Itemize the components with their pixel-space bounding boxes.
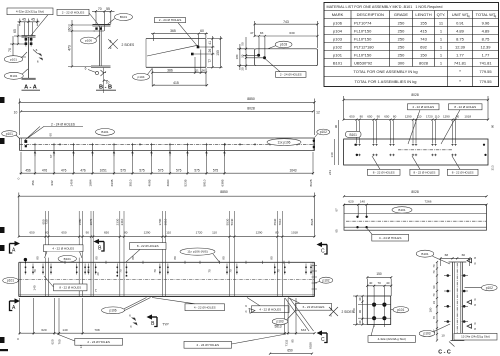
svg-text:779.55: 779.55 [479,69,492,74]
callout p102 (plan) [315,129,330,137]
svg-text:575: 575 [176,169,182,173]
svg-text:4 - 22 Ø HOLES: 4 - 22 Ø HOLES [259,307,281,311]
callout B101 (A-A) [4,69,28,79]
svg-text:415: 415 [173,81,179,85]
label 6-22 holes (elev bottom 3) [288,298,332,311]
svg-text:C: C [321,337,325,343]
svg-text:10: 10 [14,110,18,114]
weld symbol 6/6 (elev bottom) [129,314,137,329]
svg-text:365: 365 [170,29,176,33]
svg-text:50: 50 [240,42,244,46]
svg-text:1290: 1290 [256,231,263,235]
svg-text:90: 90 [432,285,436,289]
svg-text:B101: B101 [398,208,406,212]
svg-text:415: 415 [420,28,427,33]
svg-text:p104: p104 [138,75,145,79]
callout p103 (elev) [272,310,296,325]
svg-text:2 - 24 Ø HOLES: 2 - 24 Ø HOLES [280,73,302,77]
svg-text:QTY.: QTY. [437,12,446,17]
svg-text:180: 180 [235,54,239,59]
svg-text:p102: p102 [486,286,493,290]
svg-text:630: 630 [289,31,294,35]
callout B101 (R2) [392,207,412,213]
svg-text:476: 476 [42,169,48,173]
svg-text:8850: 8850 [247,97,255,101]
svg-text:p104: p104 [333,28,343,33]
plate p103 outline [235,37,317,77]
svg-text:7332: 7332 [284,339,288,346]
svg-text:B101: B101 [64,257,72,261]
svg-text:MARK: MARK [332,12,344,17]
svg-text:p106: p106 [333,20,343,25]
callout B101 (elev) [58,255,76,262]
svg-text:p103: p103 [333,36,343,41]
title A-A [22,85,41,91]
svg-text:80: 80 [124,231,128,235]
svg-text:70: 70 [432,316,436,320]
svg-text:30: 30 [358,320,362,324]
svg-text:12: 12 [316,110,320,114]
label 2-24 holes (plan) [25,122,84,140]
svg-text:68: 68 [445,253,449,257]
callout B101 (R1) [346,131,362,137]
svg-text:GRADE: GRADE [394,12,409,17]
svg-text:1408: 1408 [70,179,74,186]
svg-text:67: 67 [335,208,339,212]
svg-text:40: 40 [386,281,390,285]
svg-text:3700: 3700 [158,218,162,225]
svg-text:932: 932 [50,180,54,185]
label 11x p106 N/S (elev) [180,248,220,262]
svg-text:5235: 5235 [184,179,188,186]
gusset leader diagonals right [285,298,314,331]
svg-text:620: 620 [41,328,46,332]
callout p102 (elev) [315,277,333,283]
svg-text:70: 70 [119,269,123,273]
weld symbol 2 SIDES (elev right) [329,307,354,318]
svg-text:476: 476 [61,169,67,173]
svg-text:41: 41 [208,41,212,45]
material list table [324,3,499,87]
svg-text:650: 650 [367,115,372,119]
svg-text:4 - 22 Ø HOLES: 4 - 22 Ø HOLES [194,305,216,309]
svg-text:B101: B101 [421,252,429,256]
svg-text:9.96: 9.96 [482,20,491,25]
label 8-22 holes (elev top mid) [126,243,166,262]
svg-text:60: 60 [67,26,71,30]
svg-text:4 - 24 Ø HOLES: 4 - 24 Ø HOLES [379,236,402,240]
svg-text:83: 83 [260,31,264,35]
svg-text:20: 20 [96,272,100,275]
label 4-22 holes (elev top left) [44,245,84,258]
svg-text:p103: p103 [276,320,283,324]
callout p102 (C-C) [465,285,498,291]
svg-text:2410: 2410 [120,218,124,225]
svg-text:26: 26 [208,49,212,53]
label 2-24 holes (p103 detail) [265,59,306,77]
svg-text:692: 692 [420,44,427,49]
svg-text:1051: 1051 [100,169,107,173]
svg-text:650: 650 [104,231,109,235]
svg-text:7266: 7266 [425,200,432,204]
svg-text:741.81: 741.81 [454,60,467,65]
section marker B bottom with TYP [147,314,170,327]
svg-text:650: 650 [287,348,293,352]
svg-text:70: 70 [277,269,281,273]
svg-text:4 - 22 Ø HOLES: 4 - 22 Ø HOLES [412,105,434,109]
svg-text:90: 90 [377,115,381,119]
svg-text:80: 80 [36,256,40,260]
svg-text:70: 70 [33,269,37,273]
svg-text:620: 620 [51,339,55,344]
svg-text:8.75: 8.75 [482,36,491,41]
svg-text:250: 250 [398,52,405,57]
svg-text:12-24ø (24x32Lg Slot): 12-24ø (24x32Lg Slot) [461,335,490,339]
svg-text:8.75: 8.75 [456,36,465,41]
svg-text:2 - 24 Ø HOLES: 2 - 24 Ø HOLES [87,340,110,344]
svg-text:TYP: TYP [162,323,169,327]
svg-text:60: 60 [462,253,466,257]
svg-text:5530: 5530 [225,218,229,225]
svg-text:2 - 22 Ø HOLES: 2 - 22 Ø HOLES [62,10,85,14]
section marker B top [94,239,105,252]
svg-text:47: 47 [250,31,254,35]
svg-text:6: 6 [110,46,112,50]
svg-text:B101: B101 [101,130,109,134]
svg-text:1290: 1290 [144,231,151,235]
svg-text:p101: p101 [333,52,343,57]
callout p103 (detail) [268,41,292,49]
svg-text:743: 743 [283,20,289,24]
svg-text:110: 110 [212,231,217,235]
svg-text:40: 40 [369,281,373,285]
svg-text:150: 150 [352,308,356,313]
svg-text:8028: 8028 [247,107,255,111]
svg-text:313: 313 [491,165,495,170]
svg-text:4.89: 4.89 [482,28,491,33]
svg-text:p102: p102 [322,278,329,282]
svg-text:90: 90 [334,125,338,129]
svg-text:FL10*150: FL10*150 [354,28,372,33]
callout p101 (elev) [3,278,19,284]
svg-text:300: 300 [398,60,405,65]
svg-text:90: 90 [358,310,362,314]
svg-text:p106: p106 [85,39,92,43]
label 4-24 holes (R2) [367,228,409,241]
svg-text:6: 6 [36,48,38,52]
svg-text:1018: 1018 [464,115,471,119]
svg-text:1.77: 1.77 [482,52,491,57]
svg-text:456: 456 [31,180,35,185]
svg-text:10: 10 [441,334,445,338]
svg-text:140: 140 [62,328,67,332]
svg-text:110: 110 [435,115,440,119]
svg-text:45: 45 [31,18,35,22]
svg-text:1643: 1643 [289,169,296,173]
svg-text:8 - 22 Ø HOLES: 8 - 22 Ø HOLES [59,285,81,289]
callout p106 (elev bottom) [102,298,151,314]
svg-text:A - A: A - A [24,85,37,91]
label 4-22 holes (elev bottom 2) [247,298,289,313]
svg-text:8028: 8028 [411,93,419,97]
svg-text:70: 70 [229,269,233,273]
section marker C top [317,242,328,255]
svg-text:20: 20 [240,67,244,71]
svg-text:140: 140 [330,152,334,157]
svg-text:51: 51 [195,68,199,72]
svg-text:70: 70 [208,269,212,273]
svg-text:473: 473 [67,45,71,51]
svg-text:80: 80 [131,256,135,260]
svg-text:70: 70 [8,48,12,52]
svg-text:6385: 6385 [221,179,225,186]
svg-text:4-32ø (22x32Lg Slot): 4-32ø (22x32Lg Slot) [16,9,44,13]
svg-text:650: 650 [61,231,66,235]
svg-text:60: 60 [200,29,204,33]
callout p104 [132,69,152,81]
svg-text:0: 0 [17,177,21,179]
svg-text:80: 80 [269,256,273,260]
svg-text:4660: 4660 [166,179,170,186]
svg-text:1.77: 1.77 [456,52,465,57]
svg-text:8 - 22 Ø HOLES: 8 - 22 Ø HOLES [452,170,474,174]
svg-text:140: 140 [360,200,365,204]
svg-text:250: 250 [398,20,405,25]
svg-text:8028: 8028 [309,342,313,349]
svg-text:65: 65 [335,229,339,233]
svg-text:4085: 4085 [148,179,152,186]
plate p103 detail - dimension 743 [235,20,318,77]
svg-text:p101: p101 [397,308,404,312]
svg-text:70: 70 [432,270,436,274]
svg-text:80: 80 [360,115,364,119]
plate p103 detail - dims 47/83/630 [235,31,318,77]
svg-text:TOTAL FOR 1 ASSEMBLIES IN kg: TOTAL FOR 1 ASSEMBLIES IN kg [355,79,417,84]
callout p101 (plate detail) [391,307,409,313]
svg-text:250: 250 [398,44,405,49]
svg-text:56: 56 [202,68,206,72]
svg-text:2 - 24 Ø HOLES: 2 - 24 Ø HOLES [159,18,182,22]
svg-text:B - B: B - B [99,85,112,91]
svg-text:7010: 7010 [278,218,282,225]
label 8-22 holes (elev mid left) [44,276,87,291]
svg-text:250: 250 [398,36,405,41]
svg-text:LENGTH: LENGTH [415,12,431,17]
svg-text:1290: 1290 [443,115,450,119]
svg-text:77: 77 [94,289,98,292]
svg-text:575: 575 [194,169,200,173]
svg-text:779.55: 779.55 [479,79,492,84]
label 4-22 holes (elev bottom 1) [152,298,225,311]
svg-text:6: 6 [110,39,112,43]
svg-text:5640: 5640 [230,218,234,225]
svg-text:FL10*150: FL10*150 [354,52,372,57]
svg-text:8 - 22 Ø HOLES: 8 - 22 Ø HOLES [137,244,159,248]
svg-text:2 - 24 Ø HOLES: 2 - 24 Ø HOLES [51,122,76,126]
svg-text:150: 150 [376,272,382,276]
svg-text:708: 708 [94,328,99,332]
svg-text:8028: 8028 [419,60,429,65]
svg-text:77: 77 [208,59,212,63]
svg-text:575: 575 [213,169,219,173]
svg-text:PLT10*74: PLT10*74 [354,20,372,25]
svg-text:633: 633 [301,328,306,332]
svg-text:60: 60 [49,133,53,137]
svg-text:p106: p106 [109,308,116,312]
svg-text:1720: 1720 [196,231,203,235]
svg-text:6 - 22 Ø HOLES: 6 - 22 Ø HOLES [303,305,325,309]
svg-text:p103: p103 [423,332,430,336]
callout p101 (A-A) [4,52,27,63]
svg-text:2330: 2330 [116,218,120,225]
svg-text:p101: p101 [7,279,14,283]
svg-text:12.39: 12.39 [455,44,466,49]
svg-text:C - C: C - C [438,350,451,356]
title B-B [96,85,116,91]
callout p106 (B-B) [81,35,100,44]
svg-text:250: 250 [398,28,405,33]
svg-text:p103: p103 [280,43,287,47]
svg-text:PLT12*180: PLT12*180 [354,44,374,49]
svg-text:TOTAL FOR ONE ASSEMBLY IN kg: TOTAL FOR ONE ASSEMBLY IN kg [353,69,417,74]
svg-text:650: 650 [384,115,389,119]
label 2-24 holes (bottom right) [184,334,286,348]
title C-C [438,350,451,356]
svg-text:8028: 8028 [411,190,419,194]
svg-text:p101: p101 [10,57,17,61]
svg-text:90: 90 [86,231,90,235]
svg-text:4.89: 4.89 [456,28,465,33]
svg-text:B101: B101 [349,133,357,137]
svg-text:140: 140 [32,285,36,290]
label 8-22 holes (R1 bottom 3) [447,156,478,175]
svg-text:70: 70 [378,281,382,285]
svg-text:C: C [321,249,325,255]
svg-text:55: 55 [106,7,110,11]
svg-text:1720: 1720 [426,115,433,119]
svg-text:p102: p102 [320,130,327,134]
label 8-22 holes (R1 top) [441,104,482,144]
label 4-32 slot (plate detail) [368,325,416,343]
svg-text:65: 65 [13,29,17,33]
svg-text:95: 95 [291,339,295,343]
svg-text:476: 476 [80,169,86,173]
svg-text:650: 650 [349,115,354,119]
svg-text:8 - 22 Ø HOLES: 8 - 22 Ø HOLES [373,170,395,174]
svg-text:6530: 6530 [273,218,277,225]
svg-text:0.91: 0.91 [456,20,465,25]
svg-text:3510: 3510 [129,179,133,186]
label 4-22 holes (R1 top) [408,104,440,144]
section marker A bottom [10,298,21,311]
svg-text:741.81: 741.81 [479,60,492,65]
svg-text:575: 575 [158,169,164,173]
svg-text:FL10*150: FL10*150 [354,36,372,41]
svg-text:67: 67 [49,154,53,158]
svg-text:243: 243 [328,170,332,175]
svg-text:620: 620 [348,200,353,204]
svg-text:6: 6 [37,60,39,64]
svg-text:4 - 22 Ø HOLES: 4 - 22 Ø HOLES [52,246,74,250]
svg-text:456: 456 [25,169,31,173]
svg-text:11x p106: 11x p106 [278,140,291,144]
svg-text:80: 80 [94,256,98,260]
svg-text:MATERIAL LIST FOR ONE ASSEMBLY: MATERIAL LIST FOR ONE ASSEMBLY MK'D -B10… [327,5,443,9]
svg-text:p102: p102 [333,44,343,49]
svg-text:150: 150 [216,50,220,56]
svg-text:8 - 22 Ø HOLES: 8 - 22 Ø HOLES [414,170,436,174]
svg-text:1018: 1018 [291,231,298,235]
svg-text:575: 575 [139,169,145,173]
weld symbol 6/6 2 SIDES B-B [108,39,135,50]
callout 11x p106 [267,139,301,146]
svg-text:760: 760 [58,339,62,344]
svg-text:B101: B101 [333,60,343,65]
svg-text:4-32ø (22x32Lg Slot): 4-32ø (22x32Lg Slot) [378,337,406,341]
svg-text:8850: 8850 [220,190,228,194]
top flange plan - dimension string 456/476/1051/575 [17,152,314,186]
svg-text:70: 70 [432,293,436,297]
svg-text:1680: 1680 [78,218,82,225]
svg-text:1290: 1290 [405,115,412,119]
svg-text:155: 155 [420,20,427,25]
label 8-22 holes (R1 bottom 2) [410,156,439,175]
svg-text:2 SIDES: 2 SIDES [122,43,135,47]
svg-text:11x p106 (N/S): 11x p106 (N/S) [187,250,208,254]
svg-text:5813: 5813 [274,325,281,329]
callout p103 (C-C) [419,324,450,337]
svg-text:45: 45 [22,18,26,22]
svg-text:p101: p101 [6,132,13,136]
label 8-22 holes (R1 bottom 1) [367,156,400,175]
svg-text:DESCRIPTION: DESCRIPTION [357,12,384,17]
svg-text:B101: B101 [120,15,128,19]
callout B101 (B-B) [108,14,133,25]
section marker A top [10,241,21,254]
svg-text:70: 70 [98,7,102,11]
svg-text:6: 6 [85,67,87,71]
svg-text:650: 650 [29,231,34,235]
svg-text:80: 80 [393,115,397,119]
svg-text:110: 110 [417,115,422,119]
svg-text:8028: 8028 [309,179,313,186]
svg-text:743: 743 [420,36,427,41]
callout B101 (C-C) [416,250,450,264]
svg-text:1884: 1884 [89,179,93,186]
svg-text:30: 30 [358,297,362,301]
plate p103 left dims 50/20/180/20 [235,37,306,77]
svg-text:B101: B101 [10,74,18,78]
svg-text:33: 33 [432,301,436,305]
svg-text:80: 80 [173,256,177,260]
svg-text:70: 70 [87,269,91,273]
sheet edge marks [0,20,319,351]
svg-text:386: 386 [167,68,173,72]
svg-text:70: 70 [153,269,157,273]
weld 6/6 arrow (elev mid) [245,304,255,314]
svg-text:UB530*92: UB530*92 [354,60,373,65]
label 2-24 holes (bottom left) [57,334,123,345]
svg-text:80: 80 [222,256,226,260]
svg-text:575: 575 [121,169,127,173]
svg-text:5810: 5810 [203,179,207,186]
svg-text:20: 20 [240,54,244,58]
svg-text:80: 80 [456,115,460,119]
svg-text:90: 90 [491,125,495,129]
callout p101 (plan) [2,131,20,139]
svg-text:110: 110 [166,231,171,235]
svg-text:8 - 22 Ø HOLES: 8 - 22 Ø HOLES [454,105,476,109]
